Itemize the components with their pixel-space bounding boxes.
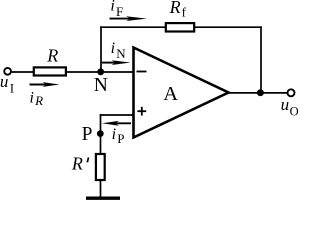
- op-amp A: [134, 48, 229, 138]
- wire: [67, 71, 134, 73]
- wire: [229, 92, 288, 94]
- current arrow i_R: [30, 82, 60, 87]
- resistor R': [96, 154, 105, 180]
- node P: [97, 130, 104, 137]
- svg-text:R: R: [46, 46, 58, 66]
- ground: [86, 196, 120, 199]
- node N: [97, 68, 104, 75]
- svg-text:N: N: [94, 75, 108, 96]
- input terminal u1: [4, 68, 11, 75]
- current arrow i_N: [102, 60, 131, 65]
- output terminal uO: [288, 89, 295, 96]
- current arrow i_F: [110, 16, 148, 21]
- wire: [100, 26, 102, 72]
- wire: [100, 114, 102, 153]
- current arrow i_P: [102, 121, 131, 126]
- resistor R: [34, 67, 66, 75]
- wire: [100, 26, 166, 28]
- wire: [100, 181, 102, 198]
- svg-text:A: A: [163, 83, 178, 105]
- svg-text:iR: iR: [30, 89, 44, 107]
- svg-text:P: P: [82, 124, 93, 145]
- resistor Rf: [166, 23, 194, 31]
- wire: [260, 26, 262, 93]
- wire: [11, 71, 34, 73]
- svg-text:R: R: [71, 154, 83, 174]
- wire: [195, 26, 262, 28]
- node (output junction): [257, 89, 264, 96]
- wire: [100, 114, 134, 116]
